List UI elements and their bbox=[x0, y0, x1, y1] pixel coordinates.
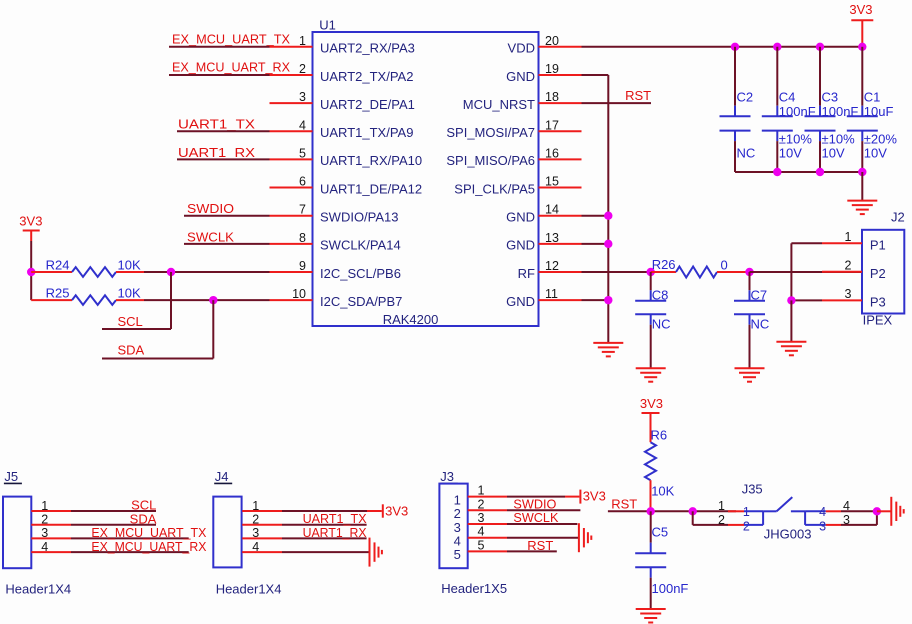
svg-text:2: 2 bbox=[252, 513, 259, 527]
svg-text:VDD: VDD bbox=[508, 41, 535, 56]
svg-text:Header1X4: Header1X4 bbox=[5, 582, 71, 597]
wire J2 gnd drop bbox=[790, 300, 792, 341]
wire J3 pin1 to 3V3 bbox=[507, 496, 579, 498]
svg-text:I2C_SDA/PB7: I2C_SDA/PB7 bbox=[320, 294, 402, 309]
wire J35 pin4 to gnd bbox=[841, 510, 877, 512]
svg-text:3: 3 bbox=[478, 511, 485, 525]
svg-text:UART1_RX: UART1_RX bbox=[303, 525, 367, 540]
J4 pin 1 bbox=[242, 499, 282, 513]
svg-text:SDA: SDA bbox=[118, 342, 145, 357]
svg-text:NC: NC bbox=[751, 316, 770, 331]
connector J2 body bbox=[862, 230, 904, 314]
U1 pin 7 (SWDIO/PA13) bbox=[270, 203, 399, 225]
junction dot J2 P3/gnd bbox=[787, 296, 795, 304]
svg-text:3: 3 bbox=[819, 520, 826, 534]
resistor R25 bbox=[31, 295, 144, 305]
svg-text:1: 1 bbox=[299, 34, 306, 48]
junction dot pin14 bbox=[604, 212, 612, 220]
svg-text:SPI_CLK/PA5: SPI_CLK/PA5 bbox=[454, 181, 535, 196]
capacitor C2 body bbox=[720, 47, 751, 172]
wire C1 to ground bbox=[861, 172, 863, 200]
svg-text:P3: P3 bbox=[870, 295, 886, 310]
junction dot pin11 bbox=[604, 296, 612, 304]
svg-text:15: 15 bbox=[545, 175, 559, 189]
svg-text:14: 14 bbox=[545, 203, 559, 217]
svg-text:3: 3 bbox=[845, 287, 852, 301]
U1 pin 19 (GND) bbox=[506, 62, 581, 84]
wire UART1_TX to pin 4 bbox=[177, 130, 270, 132]
wire GND bus vertical bbox=[607, 75, 609, 343]
svg-text:RST: RST bbox=[625, 88, 651, 103]
junction dot rail C4 bbox=[773, 43, 781, 51]
U1 pin 3 (UART2_DE/PA1) bbox=[270, 90, 415, 112]
ground (below C7) bbox=[735, 367, 765, 369]
U1 pin 15 (SPI_CLK/PA5) bbox=[454, 175, 581, 197]
junction dot RST/R6/C5 bbox=[647, 507, 655, 515]
wire J5 pin3 bbox=[71, 537, 189, 539]
J3 pin 2 bbox=[454, 497, 507, 521]
svg-text:C4: C4 bbox=[779, 90, 796, 105]
svg-text:3: 3 bbox=[299, 90, 306, 104]
svg-text:J3: J3 bbox=[440, 469, 454, 484]
svg-text:1: 1 bbox=[41, 499, 48, 513]
wire J3 pin4 to ground bbox=[507, 537, 579, 539]
junction dot pin9/SCL bbox=[167, 268, 175, 276]
wire pin11 to bus bbox=[582, 299, 609, 301]
svg-text:0: 0 bbox=[721, 257, 728, 272]
U1 pin 14 (GND) bbox=[506, 203, 581, 225]
wire EX_MCU_UART_TX to pin 1 bbox=[169, 46, 270, 48]
J5 pin 1 bbox=[31, 499, 71, 513]
svg-text:4: 4 bbox=[41, 540, 48, 554]
svg-text:NC: NC bbox=[737, 145, 756, 160]
svg-text:3V3: 3V3 bbox=[385, 504, 408, 519]
power 3V3 (J4) bbox=[383, 504, 408, 519]
junction dot bottom C1 bbox=[858, 168, 866, 176]
svg-text:GND: GND bbox=[506, 210, 535, 225]
svg-text:NC: NC bbox=[652, 316, 671, 331]
svg-text:10V: 10V bbox=[864, 145, 887, 160]
wire R25 to pin 10 bbox=[144, 299, 270, 301]
svg-text:UART1_DE/PA12: UART1_DE/PA12 bbox=[320, 181, 422, 196]
svg-text:12: 12 bbox=[545, 259, 559, 273]
wire RST from pin 18 bbox=[582, 102, 652, 104]
junction dot RST/J35 branch bbox=[689, 507, 697, 515]
svg-text:19: 19 bbox=[545, 62, 559, 76]
svg-text:R6: R6 bbox=[651, 428, 668, 443]
J4 pin 2 bbox=[242, 513, 282, 527]
svg-text:4: 4 bbox=[252, 540, 259, 554]
svg-text:EX_MCU_UART_TX: EX_MCU_UART_TX bbox=[172, 31, 290, 46]
IC U1 RAK4200 body bbox=[313, 32, 539, 326]
svg-text:10K: 10K bbox=[118, 285, 141, 300]
svg-text:MCU_NRST: MCU_NRST bbox=[463, 97, 535, 112]
power 3V3 (J3) bbox=[580, 488, 605, 503]
resistor R6 bbox=[645, 442, 656, 480]
svg-text:1: 1 bbox=[252, 499, 259, 513]
svg-text:2: 2 bbox=[718, 513, 725, 527]
J3 pin 4 bbox=[454, 525, 507, 549]
svg-text:U1: U1 bbox=[319, 18, 336, 33]
wire J4 pin3 UART1_RX bbox=[282, 537, 367, 539]
U1 pin 10 (I2C_SDA/PB7) bbox=[270, 287, 403, 309]
svg-text:UART1_TX/PA9: UART1_TX/PA9 bbox=[320, 125, 413, 140]
power 3V3 (left) bbox=[19, 214, 42, 273]
svg-text:UART2_DE/PA1: UART2_DE/PA1 bbox=[320, 97, 415, 112]
U1 pin 16 (SPI_MISO/PA6) bbox=[446, 146, 581, 168]
ground (below C8) bbox=[636, 367, 666, 369]
junction dot R26/C7 bbox=[745, 268, 753, 276]
ground (below C5) bbox=[636, 608, 666, 610]
junction dot 3V3/R24 bbox=[27, 268, 35, 276]
svg-text:1: 1 bbox=[718, 499, 725, 513]
svg-text:C8: C8 bbox=[652, 287, 669, 302]
J2 pin 2 (P2) bbox=[822, 259, 886, 282]
capacitor C8 body bbox=[635, 272, 666, 368]
wire J3 pin3 SWCLK bbox=[507, 523, 577, 525]
wire pin19 to bus bbox=[582, 74, 609, 76]
svg-text:16: 16 bbox=[545, 146, 559, 160]
capacitor C3 body bbox=[805, 47, 836, 172]
svg-text:2: 2 bbox=[845, 259, 852, 273]
wire J2 P3 to gnd drop bbox=[791, 299, 822, 301]
U1 pin 1 (UART2_RX/PA3) bbox=[270, 34, 415, 56]
svg-text:2: 2 bbox=[478, 497, 485, 511]
capacitor C4 body bbox=[762, 47, 793, 172]
ground (J3 pin4) bbox=[578, 523, 580, 552]
svg-text:4: 4 bbox=[819, 505, 826, 519]
wire pin14 to bus bbox=[582, 215, 609, 217]
ground (below C1) bbox=[847, 200, 877, 202]
J4 pin 3 bbox=[242, 526, 282, 540]
wire SDA horizontal bbox=[102, 358, 213, 360]
resistor R24 bbox=[31, 267, 144, 277]
svg-text:18: 18 bbox=[545, 90, 559, 104]
svg-text:UART1_RX: UART1_RX bbox=[178, 145, 255, 160]
svg-text:RAK4200: RAK4200 bbox=[383, 312, 439, 327]
U1 pin 13 (GND) bbox=[506, 231, 581, 253]
svg-text:RF: RF bbox=[518, 266, 535, 281]
connector J4 body bbox=[213, 497, 241, 568]
wire SCL vertical bbox=[170, 272, 172, 329]
svg-text:J2: J2 bbox=[891, 210, 905, 225]
wire R26 to J2 P2 bbox=[750, 271, 863, 273]
svg-text:17: 17 bbox=[545, 118, 559, 132]
wire J4 pin1 to 3V3 bbox=[282, 510, 382, 512]
wire J4 pin2 UART1_TX bbox=[282, 524, 367, 526]
svg-text:3V3: 3V3 bbox=[583, 488, 606, 503]
ground (J4 pin4) bbox=[369, 538, 371, 567]
U1 pin 18 (MCU_NRST) bbox=[463, 90, 582, 112]
svg-text:11: 11 bbox=[545, 287, 558, 301]
svg-text:SWCLK/PA14: SWCLK/PA14 bbox=[320, 238, 401, 253]
U1 pin 20 (VDD) bbox=[508, 34, 582, 56]
J4 pin 4 bbox=[242, 540, 282, 554]
junction dot bottom C4 bbox=[773, 168, 781, 176]
svg-text:R24: R24 bbox=[46, 257, 70, 272]
svg-text:2: 2 bbox=[41, 513, 48, 527]
J3 pin 3 bbox=[454, 511, 507, 535]
svg-text:3: 3 bbox=[41, 526, 48, 540]
svg-text:5: 5 bbox=[454, 547, 461, 562]
svg-text:SCL: SCL bbox=[118, 314, 143, 329]
junction dot bottom C3 bbox=[816, 168, 824, 176]
junction dot J35/gnd bbox=[873, 507, 881, 515]
svg-text:SWCLK: SWCLK bbox=[187, 229, 234, 244]
wire RST horizontal bbox=[608, 510, 736, 512]
svg-text:4: 4 bbox=[299, 118, 306, 132]
svg-text:13: 13 bbox=[545, 231, 559, 245]
U1 pin 5 (UART1_RX/PA10) bbox=[270, 146, 423, 168]
svg-text:C3: C3 bbox=[822, 90, 839, 105]
ground (J35 right) bbox=[890, 497, 892, 526]
svg-text:P2: P2 bbox=[870, 266, 886, 281]
svg-text:100nF: 100nF bbox=[652, 581, 689, 596]
junction dot rail C1 bbox=[858, 43, 866, 51]
svg-text:10uF: 10uF bbox=[864, 104, 894, 119]
wire VDD rail bbox=[582, 46, 863, 48]
wire to right ground bbox=[877, 510, 891, 512]
wire J3 pin5 RST bbox=[507, 550, 557, 552]
J35 pin 4 stub bbox=[826, 499, 850, 513]
connector J5 body bbox=[3, 497, 31, 569]
wire J4 pin4 to ground bbox=[282, 551, 370, 553]
svg-text:6: 6 bbox=[299, 175, 306, 189]
wire SWCLK to pin 8 bbox=[184, 243, 270, 245]
svg-text:J5: J5 bbox=[4, 469, 18, 484]
svg-text:3V3: 3V3 bbox=[19, 214, 42, 229]
svg-text:4: 4 bbox=[478, 525, 485, 539]
wire R6 to RST node bbox=[650, 480, 652, 511]
svg-text:UART1_TX: UART1_TX bbox=[178, 117, 255, 132]
svg-text:1: 1 bbox=[845, 230, 852, 244]
J2 pin 3 (P3) bbox=[822, 287, 886, 310]
U1 pin 8 (SWCLK/PA14) bbox=[270, 231, 401, 253]
svg-text:2: 2 bbox=[299, 62, 306, 76]
svg-text:SWDIO: SWDIO bbox=[187, 201, 234, 216]
wire SCL horizontal bbox=[102, 328, 171, 330]
svg-text:8: 8 bbox=[299, 231, 306, 245]
power 3V3 (R6) bbox=[640, 396, 663, 442]
svg-text:3V3: 3V3 bbox=[849, 2, 872, 17]
svg-text:GND: GND bbox=[506, 294, 535, 309]
wire SWDIO to pin 7 bbox=[184, 215, 270, 217]
wire pin12 RF to R26 bbox=[582, 271, 651, 273]
svg-text:GND: GND bbox=[506, 238, 535, 253]
svg-text:UART1_RX/PA10: UART1_RX/PA10 bbox=[320, 153, 422, 168]
ground (GND bus) bbox=[593, 342, 623, 344]
svg-text:1: 1 bbox=[478, 484, 485, 498]
wire J2 P1 to gnd drop bbox=[791, 243, 822, 300]
switch J35 symbol bbox=[744, 497, 826, 525]
svg-text:2: 2 bbox=[743, 520, 750, 534]
connector J4 designator bbox=[214, 469, 232, 484]
junction dot pin13 bbox=[604, 240, 612, 248]
junction dot RF/R26/C8 bbox=[647, 268, 655, 276]
power 3V3 (top right) bbox=[849, 2, 873, 47]
connector J3 body bbox=[439, 484, 467, 569]
svg-text:9: 9 bbox=[299, 259, 306, 273]
svg-text:J4: J4 bbox=[215, 469, 229, 484]
svg-text:J35: J35 bbox=[742, 482, 763, 497]
wire EX_MCU_UART_RX to pin 2 bbox=[169, 74, 270, 76]
svg-text:10V: 10V bbox=[779, 145, 802, 160]
U1 pin 9 (I2C_SCL/PB6) bbox=[270, 259, 401, 281]
svg-text:JHG003: JHG003 bbox=[764, 526, 812, 541]
J35 pin 3 stub bbox=[826, 513, 850, 527]
wire 3V3 rail down to R25 bbox=[30, 272, 32, 300]
svg-text:R25: R25 bbox=[46, 285, 70, 300]
svg-text:UART2_RX/PA3: UART2_RX/PA3 bbox=[320, 41, 415, 56]
capacitor C7 body bbox=[734, 272, 765, 368]
svg-text:I2C_SCL/PB6: I2C_SCL/PB6 bbox=[320, 266, 401, 281]
svg-text:GND: GND bbox=[506, 69, 535, 84]
wire J35 lower branch bbox=[693, 511, 744, 525]
svg-text:EX_MCU_UART_RX: EX_MCU_UART_RX bbox=[172, 60, 290, 75]
svg-text:UART2_TX/PA2: UART2_TX/PA2 bbox=[320, 69, 413, 84]
junction dot pin10/SDA bbox=[209, 296, 217, 304]
capacitor C5 body bbox=[635, 511, 666, 608]
J5 pin 3 bbox=[31, 526, 71, 540]
ground (J2 shield) bbox=[776, 341, 806, 343]
wire J35 pin3 loop bbox=[841, 511, 877, 525]
wire J5 pin2 SDA bbox=[71, 524, 156, 526]
svg-text:RST: RST bbox=[527, 538, 553, 553]
wire SDA vertical bbox=[212, 300, 214, 358]
svg-text:Header1X5: Header1X5 bbox=[441, 581, 507, 596]
junction dot rail C3 bbox=[816, 43, 824, 51]
J5 pin 4 bbox=[31, 540, 71, 554]
svg-text:IPEX: IPEX bbox=[863, 312, 893, 327]
J3 pin 1 bbox=[454, 484, 507, 508]
J35 pin 1 stub bbox=[718, 499, 744, 513]
J5 pin 2 bbox=[31, 513, 71, 527]
svg-text:R26: R26 bbox=[652, 257, 676, 272]
U1 pin 2 (UART2_TX/PA2) bbox=[270, 62, 414, 84]
svg-text:P1: P1 bbox=[870, 238, 886, 253]
svg-text:5: 5 bbox=[478, 538, 485, 552]
svg-text:C2: C2 bbox=[737, 90, 754, 105]
wire pin13 to bus bbox=[582, 243, 609, 245]
resistor R26 bbox=[651, 267, 750, 278]
svg-text:EX_MCU_UART_RX: EX_MCU_UART_RX bbox=[91, 539, 206, 554]
svg-text:20: 20 bbox=[545, 34, 559, 48]
svg-text:SWCLK: SWCLK bbox=[513, 510, 558, 525]
U1 pin 12 (RF) bbox=[518, 259, 582, 281]
capacitor C1 body bbox=[847, 47, 878, 172]
U1 pin 4 (UART1_TX/PA9) bbox=[270, 118, 414, 140]
svg-text:10K: 10K bbox=[118, 257, 141, 272]
svg-text:7: 7 bbox=[299, 203, 306, 217]
U1 pin 17 (SPI_MOSI/PA7) bbox=[446, 118, 581, 140]
wire J5 pin4 bbox=[71, 551, 189, 553]
wire cap bottom rail bbox=[735, 171, 862, 173]
J3 pin 5 bbox=[454, 538, 507, 562]
connector J5 designator bbox=[4, 469, 22, 484]
svg-text:10V: 10V bbox=[822, 145, 845, 160]
U1 pin 11 (GND) bbox=[506, 287, 581, 309]
svg-text:C1: C1 bbox=[864, 90, 881, 105]
svg-text:10: 10 bbox=[292, 287, 306, 301]
U1 pin 6 (UART1_DE/PA12) bbox=[270, 175, 423, 197]
wire J5 pin1 SCL bbox=[71, 510, 156, 512]
svg-text:SPI_MOSI/PA7: SPI_MOSI/PA7 bbox=[446, 125, 535, 140]
svg-text:SWDIO/PA13: SWDIO/PA13 bbox=[320, 210, 399, 225]
wire J3 pin2 SWDIO bbox=[507, 509, 580, 511]
svg-text:Header1X4: Header1X4 bbox=[216, 582, 282, 597]
svg-text:5: 5 bbox=[299, 146, 306, 160]
J2 pin 1 (P1) bbox=[822, 230, 886, 253]
wire UART1_RX to pin 5 bbox=[177, 158, 270, 160]
wire R24 to pin 9 bbox=[144, 271, 270, 273]
junction dot rail C2 bbox=[731, 43, 739, 51]
svg-text:SPI_MISO/PA6: SPI_MISO/PA6 bbox=[446, 153, 535, 168]
svg-text:10K: 10K bbox=[651, 484, 674, 499]
svg-text:3: 3 bbox=[252, 526, 259, 540]
connector J3 designator bbox=[440, 469, 458, 484]
svg-text:RST: RST bbox=[611, 496, 637, 511]
svg-text:C7: C7 bbox=[751, 287, 768, 302]
svg-text:3V3: 3V3 bbox=[640, 396, 663, 411]
svg-text:C5: C5 bbox=[652, 525, 669, 540]
